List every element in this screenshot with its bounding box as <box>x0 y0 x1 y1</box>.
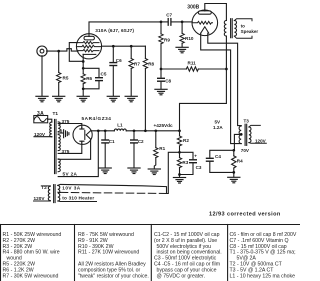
ground (R6/C5) <box>77 96 89 102</box>
capacitor C7 <box>161 13 182 26</box>
parts table rule <box>0 224 300 226</box>
ground (input jack) <box>36 96 48 102</box>
parts list column 2 <box>78 232 149 279</box>
svg-text:3A: 3A <box>37 111 44 117</box>
capacitor C8 <box>158 69 172 89</box>
capacitor C3 <box>180 152 202 174</box>
svg-text:300B: 300B <box>187 5 199 11</box>
node R3/C3 bottom <box>178 173 181 176</box>
node input/R5 junction <box>57 50 60 53</box>
wire G3-cathode loop <box>69 43 83 62</box>
node R6/C5 bottom <box>82 87 85 90</box>
svg-text:C1: C1 <box>109 139 115 144</box>
svg-text:R10: R10 <box>185 36 194 41</box>
wire 375 top to rectifier plate <box>58 124 82 128</box>
node 300B grid / R10 <box>181 21 184 24</box>
svg-text:10V 3A: 10V 3A <box>62 185 80 190</box>
parts table left border <box>0 225 2 281</box>
node R1 tap <box>154 129 157 132</box>
wire 5V top to rectifier filament <box>58 140 90 160</box>
svg-text:120V: 120V <box>34 196 46 201</box>
ground (R5) <box>53 96 65 102</box>
svg-text:70V: 70V <box>241 148 250 153</box>
capacitor C5 <box>83 68 107 89</box>
svg-text:L1: L1 <box>117 123 123 128</box>
tube 310A U1 <box>76 28 134 62</box>
svg-text:R7: R7 <box>134 62 140 67</box>
wire T3 primary 120V <box>249 125 266 143</box>
wire cathode to R6 <box>82 62 84 69</box>
ground (C1) <box>99 168 111 174</box>
node C1 tap <box>104 129 107 132</box>
wire R8 to B+ rail <box>144 69 146 131</box>
ground (R7) <box>125 96 137 102</box>
resistor R4 <box>232 150 244 177</box>
fuse F1 3A <box>34 111 48 123</box>
wire OPT primary to B+ rail <box>180 36 227 131</box>
node R9/R11/C8 <box>160 68 163 71</box>
wire heater bottom dashed <box>60 192 166 193</box>
resistor R2 <box>177 131 189 153</box>
svg-text:R6: R6 <box>86 76 92 81</box>
ground (C2) <box>128 168 140 174</box>
parts table divider 3 <box>227 225 229 281</box>
svg-text:"tweak" resistor of your choic: "tweak" resistor of your choice. <box>78 273 149 279</box>
tube 5AR4/GZ34 rectifier <box>73 116 111 145</box>
wire divider to heater bias <box>167 152 180 193</box>
svg-text:C8: C8 <box>165 79 171 84</box>
svg-text:to: to <box>241 23 245 28</box>
svg-text:T3: T3 <box>244 118 250 123</box>
wire jack to ground <box>41 56 43 96</box>
svg-text:12/93 corrected version: 12/93 corrected version <box>209 212 281 218</box>
node R4/C4 bottom <box>232 171 235 174</box>
wire OPT secondary to speaker <box>234 19 252 39</box>
svg-text:+: + <box>194 153 197 158</box>
svg-text:R3: R3 <box>182 160 188 165</box>
wire 375 bottom to rectifier plate <box>58 143 82 153</box>
node C6 tap <box>112 45 115 48</box>
svg-text:+425Vdc: +425Vdc <box>154 123 174 128</box>
capacitor C2 <box>131 131 144 168</box>
svg-text:C3: C3 <box>196 165 202 170</box>
wire screen node <box>102 45 146 47</box>
capacitor C1 <box>102 131 115 168</box>
wire 300B plate to OPT <box>205 4 227 21</box>
ground (R4/C4) <box>228 177 240 183</box>
svg-text:to 310 Heater: to 310 Heater <box>62 196 94 201</box>
resistor R11 <box>161 61 226 72</box>
svg-text:R11 - 27K 10W wirewound: R11 - 27K 10W wirewound <box>78 250 139 256</box>
resistor R10 <box>180 22 194 47</box>
wire 300B filament left <box>201 33 242 143</box>
resistor R6 <box>81 68 93 96</box>
wire 120V to T1 <box>34 136 52 138</box>
resistor R5 <box>57 51 69 96</box>
transformer T1 power <box>50 111 61 174</box>
resistor R9 <box>159 22 171 69</box>
wire 300B filament right <box>208 33 241 125</box>
parts list column 4 <box>230 232 297 279</box>
wire input to grid with crossover hop <box>47 49 78 51</box>
node C2 tap <box>133 129 136 132</box>
capacitor C4 <box>207 150 234 172</box>
svg-text:R2: R2 <box>183 138 189 143</box>
node cathode junction <box>82 60 85 63</box>
label 5V 1.2A <box>213 120 223 130</box>
node plate/R9/C7 <box>160 21 163 24</box>
parts list column 1 <box>3 232 62 279</box>
svg-text:C4: C4 <box>215 154 221 159</box>
node R11 right <box>225 68 228 71</box>
svg-text:120V: 120V <box>255 139 267 144</box>
ground (R10) <box>176 47 188 53</box>
node R2/R3/C3 <box>178 151 181 154</box>
node 70V <box>232 149 235 152</box>
resistor R3 <box>177 152 188 177</box>
svg-text:R9: R9 <box>164 37 170 42</box>
svg-text:5AR4/GZ34: 5AR4/GZ34 <box>82 116 112 121</box>
ground (R3/C3) <box>173 178 185 184</box>
svg-text:C2: C2 <box>138 139 144 144</box>
wire grid 300B <box>182 21 192 23</box>
node B+ corner / R2 top <box>178 129 181 132</box>
svg-text:R1: R1 <box>159 146 165 151</box>
node R7 tap <box>130 45 133 48</box>
svg-text:C7: C7 <box>166 13 172 18</box>
wire T2 secondary mid lead <box>58 191 61 193</box>
capacitor C6 <box>110 46 122 96</box>
input jack J1 <box>37 46 47 56</box>
transformer T2 heater <box>34 185 60 203</box>
svg-text:310A (6J7, 6SJ7): 310A (6J7, 6SJ7) <box>95 28 134 33</box>
svg-text:R5: R5 <box>63 76 69 81</box>
inductor L1 choke <box>114 123 126 131</box>
node R6/C5 top <box>82 67 85 70</box>
tube 300B U2 <box>187 5 217 36</box>
node 5V riser <box>97 129 100 132</box>
wire heater stub <box>58 200 97 203</box>
transformer OPT output <box>224 19 236 38</box>
wire heater top 10V <box>58 184 167 193</box>
svg-text:T1: T1 <box>53 111 59 116</box>
parts table divider 1 <box>74 225 76 281</box>
ground (C6) <box>107 96 119 102</box>
svg-text:C6: C6 <box>116 58 122 63</box>
resistor R8 <box>143 46 154 68</box>
wire fuse to T1 <box>48 119 52 122</box>
svg-text:@ 75VDC or greater.: @ 75VDC or greater. <box>157 273 206 279</box>
ground (C8) <box>155 89 167 95</box>
transformer T3 filament <box>239 118 251 145</box>
parts table divider 2 <box>150 225 152 281</box>
svg-text:R4: R4 <box>237 158 243 163</box>
resistor R1 <box>154 131 166 169</box>
wire T3 CT to 70V node <box>234 134 241 150</box>
node R8 tap <box>144 129 147 132</box>
node T3 CT <box>240 133 243 136</box>
svg-text:Speaker: Speaker <box>241 29 259 34</box>
svg-text:L1 - 10 heavy 125 ma choke: L1 - 10 heavy 125 ma choke <box>230 273 296 279</box>
svg-text:5V 2A: 5V 2A <box>63 171 78 176</box>
chassis ground T1 CT <box>58 130 69 138</box>
label to Speaker <box>241 23 259 33</box>
resistor R7 <box>129 46 140 96</box>
ground (R1) <box>148 169 160 175</box>
svg-text:C5: C5 <box>101 71 107 76</box>
parts list column 3 <box>154 232 222 279</box>
svg-text:1.2A: 1.2A <box>213 125 223 130</box>
wire B+ rail <box>91 130 180 132</box>
svg-text:R8: R8 <box>148 62 154 67</box>
svg-text:R11: R11 <box>188 61 197 66</box>
wire 310A plate to C7 <box>89 22 161 34</box>
svg-text:R7 - 30K 5W wirewound: R7 - 30K 5W wirewound <box>3 273 59 279</box>
wire 5V bottom to output node <box>58 131 98 177</box>
